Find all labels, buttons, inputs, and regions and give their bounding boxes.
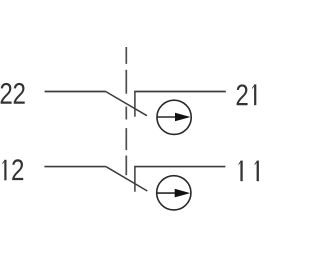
NC contact moving arm (top) (106, 92, 147, 116)
NC contact moving arm (bottom) (106, 167, 147, 191)
terminal label 11 (239, 161, 259, 182)
mechanical link dashed line (125, 47, 127, 175)
terminal label 21 (237, 84, 257, 105)
NC contact fixed terminal (bottom) (134, 166, 136, 192)
wire to terminal 21 (134, 91, 226, 93)
positive-opening arrow (bottom) (157, 189, 191, 198)
positive-opening symbol circle (bottom) (157, 176, 191, 210)
positive-opening arrow (top) (157, 113, 191, 121)
wire to terminal 11 (134, 166, 225, 168)
terminal label 12 (2, 159, 23, 180)
terminal label 22 (1, 83, 25, 104)
wire from terminal 12 (44, 166, 106, 168)
wire from terminal 22 (45, 91, 106, 93)
positive-opening symbol circle (top) (157, 100, 191, 134)
NC contact fixed terminal (top) (134, 91, 136, 117)
